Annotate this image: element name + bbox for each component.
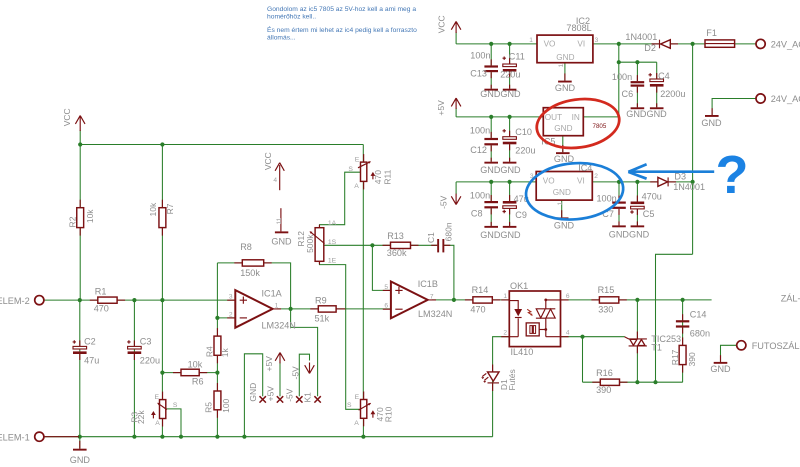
svg-text:Futés: Futés <box>507 369 517 390</box>
svg-text:LM324N: LM324N <box>262 320 296 330</box>
svg-text:VO: VO <box>543 177 555 186</box>
svg-text:C4: C4 <box>658 71 670 81</box>
svg-text:Gondolom az ic5 7805 az 5V-hoz: Gondolom az ic5 7805 az 5V-hoz kell a am… <box>267 6 416 13</box>
svg-text:VCC: VCC <box>437 15 447 33</box>
svg-text:GND: GND <box>701 118 722 128</box>
svg-text:7: 7 <box>430 293 434 300</box>
svg-text:GND: GND <box>555 83 576 93</box>
svg-text:R14: R14 <box>472 285 489 295</box>
svg-text:C9: C9 <box>515 210 527 220</box>
svg-text:IC1B: IC1B <box>418 279 438 289</box>
svg-text:1: 1 <box>558 64 565 68</box>
svg-text:GND: GND <box>556 53 574 62</box>
svg-text:1E: 1E <box>328 257 337 264</box>
svg-text:4: 4 <box>566 330 570 337</box>
svg-text:LM324N: LM324N <box>418 309 452 319</box>
svg-text:K1: K1 <box>303 392 313 403</box>
svg-text:+5V: +5V <box>264 356 274 372</box>
svg-text:GND: GND <box>70 455 91 465</box>
svg-text:E: E <box>155 394 160 401</box>
svg-text:470: 470 <box>373 170 383 184</box>
svg-text:360k: 360k <box>387 248 407 258</box>
svg-text:470: 470 <box>470 305 485 315</box>
svg-text:?: ? <box>716 145 749 205</box>
svg-text:220u: 220u <box>500 70 520 80</box>
svg-text:C3: C3 <box>140 336 152 346</box>
svg-text:680n: 680n <box>443 222 453 241</box>
svg-text:R15: R15 <box>598 285 615 295</box>
svg-text:OK1: OK1 <box>510 281 528 291</box>
svg-text:ZÁL-: ZÁL- <box>781 294 800 304</box>
svg-text:R4: R4 <box>204 346 214 357</box>
svg-text:220u: 220u <box>515 145 535 155</box>
svg-text:F1: F1 <box>706 28 717 38</box>
svg-text:C5: C5 <box>643 209 655 219</box>
svg-text:-5V: -5V <box>290 366 300 380</box>
svg-text:S: S <box>173 402 178 409</box>
svg-text:+5V: +5V <box>436 100 446 116</box>
svg-text:VI: VI <box>577 177 585 186</box>
svg-text:GNDGND: GNDGND <box>480 165 521 175</box>
svg-text:homérőhöz kell..: homérőhöz kell.. <box>267 14 316 21</box>
svg-text:100n: 100n <box>597 193 617 203</box>
svg-text:3: 3 <box>595 37 599 44</box>
svg-text:GND: GND <box>710 364 731 374</box>
svg-text:R7: R7 <box>165 203 175 214</box>
svg-text:GNDGND: GNDGND <box>609 229 650 239</box>
svg-text:1: 1 <box>275 302 279 309</box>
svg-text:2: 2 <box>594 173 598 180</box>
svg-text:100n: 100n <box>470 126 490 136</box>
svg-text:R16: R16 <box>596 368 613 378</box>
svg-text:2: 2 <box>503 330 507 337</box>
svg-text:24V_AC: 24V_AC <box>771 40 800 50</box>
svg-text:100: 100 <box>221 398 231 412</box>
svg-text:150k: 150k <box>240 268 260 278</box>
svg-text:330: 330 <box>598 305 613 315</box>
svg-text:500k: 500k <box>305 234 315 253</box>
svg-text:220u: 220u <box>140 356 160 366</box>
svg-text:A: A <box>354 183 359 190</box>
svg-text:A: A <box>354 420 359 427</box>
svg-text:390: 390 <box>596 385 611 395</box>
svg-text:1A: 1A <box>328 220 337 227</box>
svg-text:1: 1 <box>557 202 564 206</box>
svg-text:5: 5 <box>384 284 388 291</box>
svg-text:VCC: VCC <box>263 152 273 170</box>
svg-text:R11: R11 <box>383 169 393 184</box>
svg-text:S: S <box>347 402 352 409</box>
svg-text:D2: D2 <box>644 43 656 53</box>
svg-text:C1: C1 <box>426 232 436 243</box>
svg-text:OUT: OUT <box>545 113 562 122</box>
svg-text:-5V: -5V <box>438 195 448 209</box>
svg-text:680n: 680n <box>690 328 710 338</box>
svg-text:390: 390 <box>687 352 697 366</box>
svg-text:R5: R5 <box>204 402 214 413</box>
svg-text:T1: T1 <box>651 343 662 353</box>
svg-text:VI: VI <box>577 39 585 48</box>
svg-text:1: 1 <box>503 293 507 300</box>
svg-text:GNDGND: GNDGND <box>480 230 521 240</box>
svg-text:2: 2 <box>229 311 233 318</box>
svg-text:A: A <box>155 420 160 427</box>
svg-text:ELEM-2: ELEM-2 <box>0 296 30 306</box>
svg-text:VCC: VCC <box>62 108 72 126</box>
svg-text:R2: R2 <box>67 216 77 227</box>
svg-text:100n: 100n <box>470 190 490 200</box>
svg-text:E: E <box>355 157 360 164</box>
svg-text:R8: R8 <box>240 242 252 252</box>
svg-text:4: 4 <box>273 177 277 184</box>
svg-text:470u: 470u <box>642 191 662 201</box>
svg-text:GND: GND <box>271 236 292 246</box>
svg-text:GNDGND: GNDGND <box>626 109 667 119</box>
svg-text:10k: 10k <box>148 202 158 216</box>
svg-text:R1: R1 <box>95 286 107 296</box>
svg-text:10k: 10k <box>85 209 95 223</box>
svg-text:100n: 100n <box>470 51 490 61</box>
svg-text:állomás...: állomás... <box>267 34 296 41</box>
svg-text:IL410: IL410 <box>511 347 534 357</box>
svg-text:1N4001: 1N4001 <box>625 32 657 42</box>
svg-text:E: E <box>355 394 360 401</box>
svg-text:1k: 1k <box>220 348 230 358</box>
svg-text:És nem értem mi lehet az ic4 p: És nem értem mi lehet az ic4 pedig kell … <box>267 25 417 34</box>
svg-text:C10: C10 <box>515 127 532 137</box>
svg-text:S: S <box>348 166 353 173</box>
svg-text:1S: 1S <box>328 239 337 246</box>
svg-text:R10: R10 <box>384 406 394 422</box>
svg-text:C2: C2 <box>84 336 96 346</box>
svg-text:+5V: +5V <box>266 386 276 402</box>
svg-text:6: 6 <box>566 293 570 300</box>
svg-text:GNDGND: GNDGND <box>480 89 521 99</box>
svg-text:C13: C13 <box>470 69 487 79</box>
svg-text:11: 11 <box>276 217 283 224</box>
svg-text:7808L: 7808L <box>566 23 591 33</box>
svg-text:470: 470 <box>94 303 109 313</box>
svg-text:C12: C12 <box>470 145 487 155</box>
svg-text:47u: 47u <box>84 356 99 366</box>
svg-text:51k: 51k <box>315 314 330 324</box>
svg-text:GND: GND <box>553 188 571 197</box>
svg-text:1N4001: 1N4001 <box>673 182 705 192</box>
svg-text:R17: R17 <box>670 349 680 365</box>
svg-text:R13: R13 <box>387 231 404 241</box>
svg-text:6: 6 <box>384 303 388 310</box>
svg-text:C6: C6 <box>622 89 634 99</box>
svg-text:R9: R9 <box>315 295 327 305</box>
svg-text:IC1A: IC1A <box>262 288 283 298</box>
svg-text:GND: GND <box>554 221 575 231</box>
svg-text:2200u: 2200u <box>660 89 685 99</box>
svg-text:C14: C14 <box>690 310 707 320</box>
svg-text:IN: IN <box>572 113 580 122</box>
svg-text:VO: VO <box>544 39 556 48</box>
svg-text:24V_AC: 24V_AC <box>771 94 800 104</box>
svg-text:C11: C11 <box>509 52 525 62</box>
svg-text:R6: R6 <box>192 377 204 387</box>
svg-text:10k: 10k <box>188 359 203 369</box>
svg-text:ELEM-1: ELEM-1 <box>0 433 30 443</box>
svg-text:7805: 7805 <box>593 123 607 130</box>
svg-text:22k: 22k <box>136 410 146 424</box>
svg-text:-5V: -5V <box>284 388 294 402</box>
svg-text:C8: C8 <box>471 209 483 219</box>
svg-text:GND: GND <box>554 124 572 133</box>
svg-text:1: 1 <box>529 37 533 44</box>
svg-text:GND: GND <box>248 383 258 402</box>
svg-text:FUTOSZÁL-: FUTOSZÁL- <box>752 341 800 351</box>
svg-text:3: 3 <box>229 294 233 301</box>
svg-text:100n: 100n <box>612 72 632 82</box>
